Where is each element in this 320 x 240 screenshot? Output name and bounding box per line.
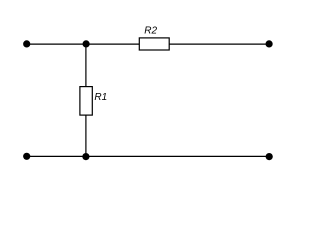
svg-text:R1: R1 — [94, 92, 107, 103]
node bottom junction — [82, 153, 89, 160]
node bottom-left terminal — [23, 153, 30, 160]
wire top rail right segment — [169, 43, 269, 45]
node top-right terminal — [266, 40, 273, 47]
wire vertical upper segment — [85, 44, 87, 87]
resistor R2 — [139, 38, 169, 50]
node top junction — [83, 40, 90, 47]
wire bottom rail — [27, 155, 270, 157]
node bottom-right terminal — [266, 153, 273, 160]
wire top rail left segment — [27, 43, 140, 45]
svg-text:R2: R2 — [144, 26, 157, 37]
node top-left terminal — [23, 40, 30, 47]
wire vertical lower segment — [85, 115, 87, 156]
resistor R1 — [80, 87, 92, 116]
